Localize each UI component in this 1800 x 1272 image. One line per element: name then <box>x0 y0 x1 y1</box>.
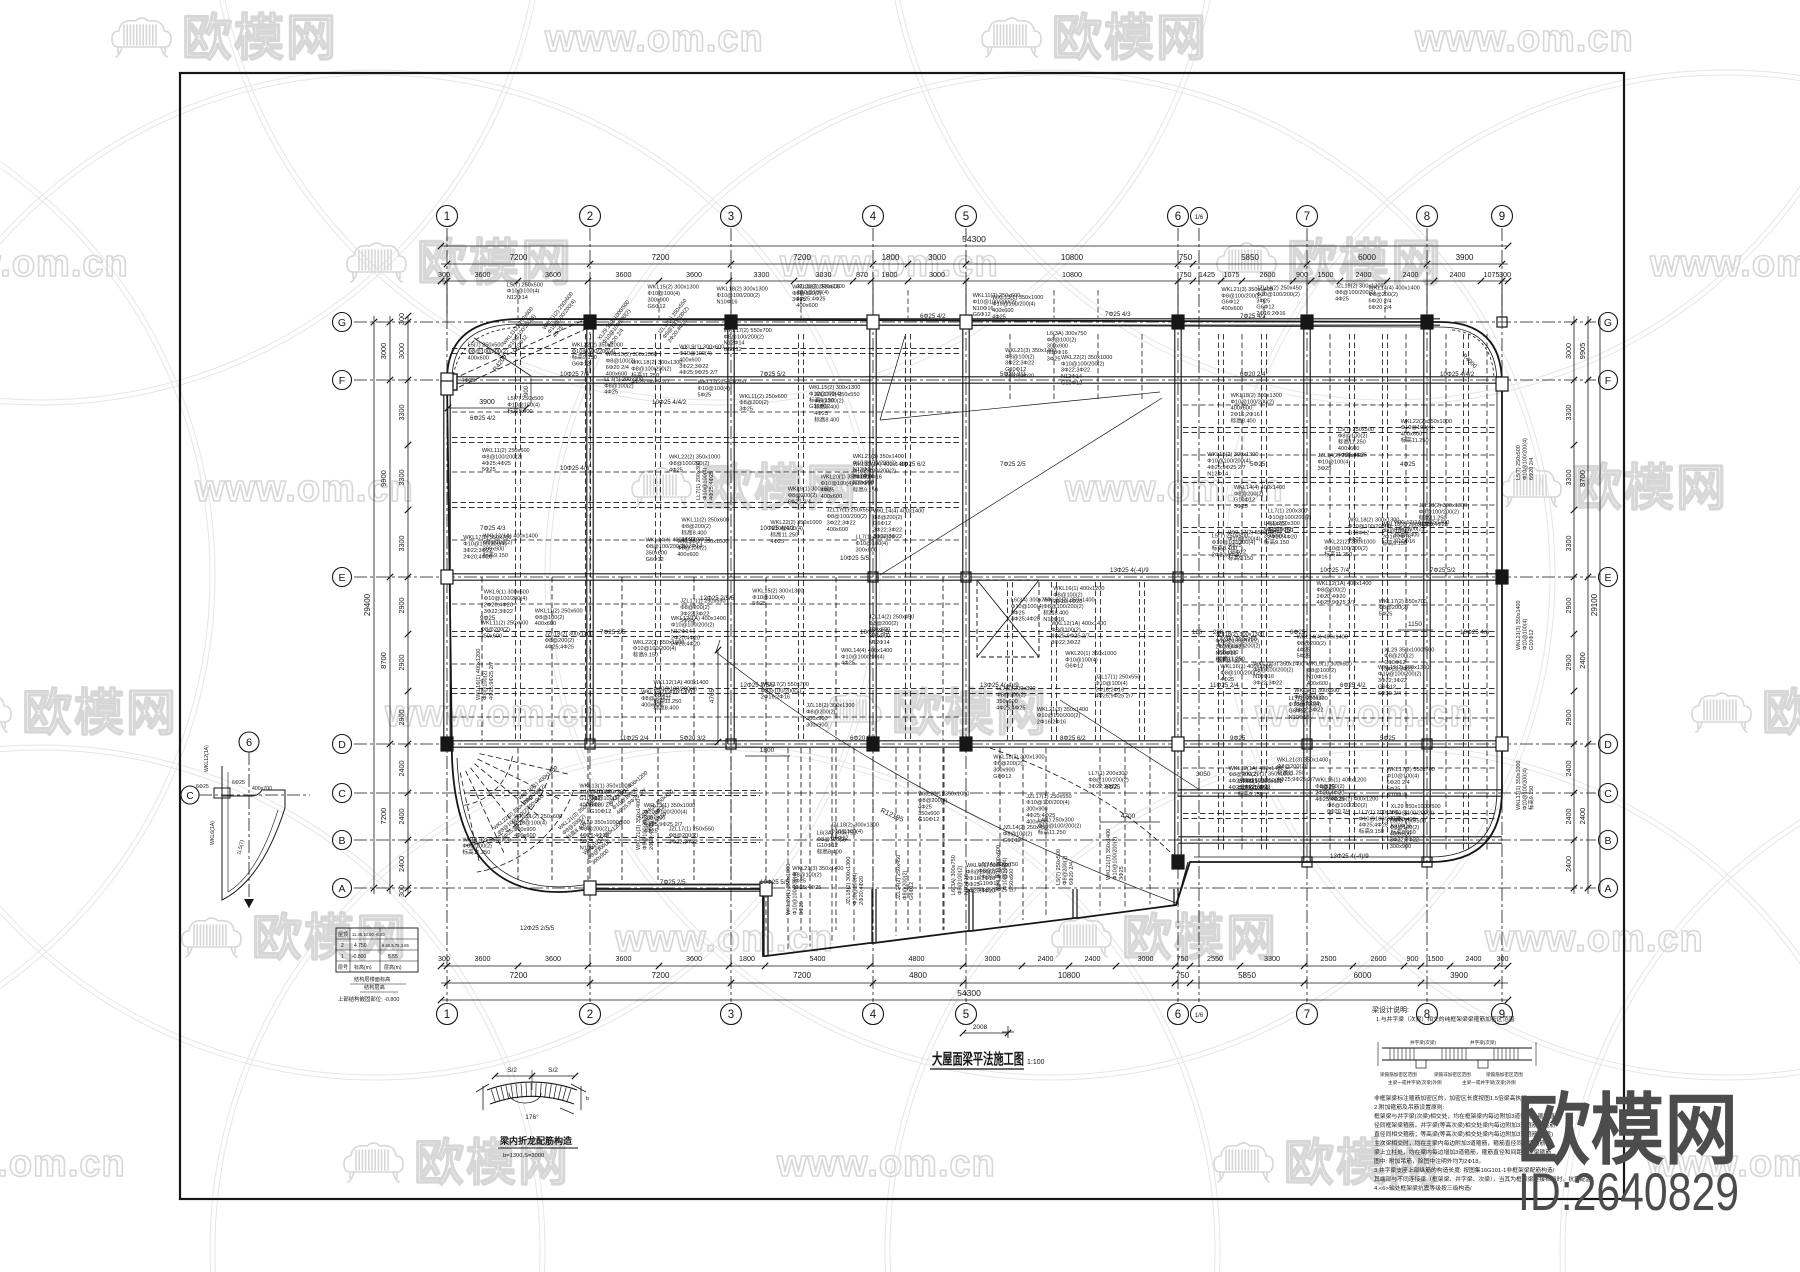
dim 2008 above title <box>963 1032 1008 1034</box>
secondary beam right y=691 <box>1183 687 1497 689</box>
svg-text:大屋面梁平法施工图: 大屋面梁平法施工图 <box>932 1050 1024 1068</box>
svg-text:Φ10@100/200(4): Φ10@100/200(4) <box>1348 524 1392 530</box>
svg-text:Φ10@100(4): Φ10@100(4) <box>1387 774 1420 780</box>
svg-text:7Φ25 5/2: 7Φ25 5/2 <box>760 371 786 378</box>
svg-text:L5(7) 250x500: L5(7) 250x500 <box>1338 427 1374 433</box>
svg-text:400x700: 400x700 <box>252 786 272 792</box>
svg-text:G6Φ12: G6Φ12 <box>1268 522 1286 528</box>
svg-text:G6Φ12: G6Φ12 <box>830 835 848 841</box>
secondary beam right x=1352 <box>1348 334 1350 852</box>
svg-text:标高8.400: 标高8.400 <box>1043 609 1068 617</box>
svg-text:3000: 3000 <box>985 954 1001 963</box>
svg-text:5Φ25: 5Φ25 <box>1380 735 1396 742</box>
axis line D <box>354 743 1596 745</box>
svg-text:A: A <box>1604 883 1611 895</box>
axis bubble 8 <box>1417 206 1438 227</box>
svg-text:3Φ22;3Φ22: 3Φ22;3Φ22 <box>484 609 513 615</box>
svg-text:2008: 2008 <box>973 1024 988 1031</box>
svg-text:4Φ25: 4Φ25 <box>461 378 475 384</box>
axis grid centerlines <box>354 228 1596 1002</box>
secondary beam right single x=1242 <box>1241 334 1243 852</box>
beam on axis A <box>590 884 766 886</box>
svg-text:G6Φ12: G6Φ12 <box>648 304 666 310</box>
svg-text:Φ8@100(2): Φ8@100(2) <box>1307 668 1337 674</box>
svg-text:Φ10@100(4): Φ10@100(4) <box>1318 459 1351 465</box>
svg-text:2400: 2400 <box>1564 761 1573 777</box>
svg-text:WKL16(1) 400x1200: WKL16(1) 400x1200 <box>1220 664 1271 670</box>
svg-text:Φ8@200(2): Φ8@200(2) <box>918 798 948 804</box>
svg-text:Φ10@100(4): Φ10@100(4) <box>679 351 712 357</box>
secondary beam lower x=658 <box>657 748 659 880</box>
svg-text:5Φ25: 5Φ25 <box>1297 654 1311 660</box>
dimension lines top <box>438 234 1511 284</box>
secondary beam grid left block <box>452 334 962 930</box>
svg-text:8700: 8700 <box>1578 470 1587 487</box>
svg-text:2400: 2400 <box>1466 954 1482 963</box>
secondary beam right single y=718 <box>1183 717 1497 719</box>
svg-text:G10Φ12: G10Φ12 <box>1348 530 1369 536</box>
svg-text:N10Φ16: N10Φ16 <box>717 299 738 305</box>
svg-text:4.<6>轴处框架梁抗震等级按三级构造/: 4.<6>轴处框架梁抗震等级按三级构造/ <box>1374 1184 1472 1192</box>
svg-text:3300: 3300 <box>1564 536 1573 552</box>
secondary beam lower x=552 <box>551 748 553 880</box>
svg-text:3600: 3600 <box>475 270 491 279</box>
svg-text:1075: 1075 <box>1484 270 1500 279</box>
svg-text:Φ8@200(2): Φ8@200(2) <box>993 761 1023 767</box>
secondary beam right y=430 <box>1183 426 1497 428</box>
svg-text:1800: 1800 <box>760 747 775 754</box>
column at (590,888) <box>584 881 596 895</box>
svg-text:7Φ25 5/2: 7Φ25 5/2 <box>1430 567 1456 574</box>
axis line F <box>354 379 1596 381</box>
svg-text:1:100: 1:100 <box>1027 1059 1045 1066</box>
svg-text:300x900: 300x900 <box>806 716 827 722</box>
svg-text:井字梁(次梁): 井字梁(次梁) <box>1470 1039 1496 1046</box>
beam on axis 3 <box>727 322 729 744</box>
svg-text:9: 9 <box>1499 211 1505 223</box>
svg-text:L5(7) 250x500: L5(7) 250x500 <box>468 343 504 349</box>
column at (966,744) <box>960 737 972 751</box>
axis bubble C <box>1599 784 1618 803</box>
svg-text:Φ8@100(2): Φ8@100(2) <box>957 865 963 895</box>
column at (966,322) <box>960 315 972 329</box>
svg-text:G6Φ12: G6Φ12 <box>1378 684 1396 690</box>
svg-text:8Φ25 6/2: 8Φ25 6/2 <box>1060 735 1086 742</box>
secondary beam right single x=1446 <box>1445 334 1447 852</box>
svg-text:13Φ25 4(-4)/9: 13Φ25 4(-4)/9 <box>980 682 1019 689</box>
slab rib x=1100 <box>1099 748 1101 911</box>
column at (766,889) <box>760 882 772 896</box>
secondary beam grid mid block <box>970 334 1174 740</box>
dimension lines left <box>363 313 411 897</box>
svg-text:G6Φ12: G6Φ12 <box>724 347 742 353</box>
svg-text:Φ10@100/200(4): Φ10@100/200(4) <box>1522 438 1528 480</box>
svg-text:G6Φ12: G6Φ12 <box>572 362 590 368</box>
svg-text:3900: 3900 <box>479 399 495 406</box>
svg-text:300x900: 300x900 <box>1390 844 1411 850</box>
svg-text:6: 6 <box>1175 211 1181 223</box>
svg-text:Φ8@100(2): Φ8@100(2) <box>641 696 671 702</box>
secondary beam y=634 <box>452 630 962 632</box>
svg-text:9905: 9905 <box>1578 343 1587 360</box>
secondary beam mid y=634 <box>970 630 1174 632</box>
secondary beam single y=540 <box>452 539 962 541</box>
floor level table <box>336 928 418 1003</box>
svg-text:WKL14(4) 400x1400: WKL14(4) 400x1400 <box>873 508 924 514</box>
svg-text:N12Φ14: N12Φ14 <box>1061 374 1082 380</box>
svg-text:Φ8@200(2): Φ8@200(2) <box>681 524 711 530</box>
column at (447,380) <box>441 373 453 387</box>
fan arc r=126 <box>477 791 574 872</box>
svg-text:9Φ25: 9Φ25 <box>1230 735 1246 742</box>
svg-text:2400: 2400 <box>1085 954 1101 963</box>
svg-text:5400: 5400 <box>810 954 826 963</box>
svg-text:10800: 10800 <box>1061 253 1084 262</box>
svg-text:WKL13(1) 350x1000: WKL13(1) 350x1000 <box>1516 761 1522 810</box>
svg-text:WKL22(2) 350x1000: WKL22(2) 350x1000 <box>669 455 720 461</box>
svg-text:N10Φ16: N10Φ16 <box>1289 715 1310 721</box>
svg-text:G10Φ12: G10Φ12 <box>1234 498 1255 504</box>
dim 900 rotated <box>530 378 532 404</box>
svg-text:WKL21(3) 350x1400: WKL21(3) 350x1400 <box>1037 707 1088 713</box>
secondary beam y=440 <box>452 436 962 438</box>
svg-text:Φ10@100(4): Φ10@100(4) <box>1011 604 1044 610</box>
svg-text:5Φ25: 5Φ25 <box>1011 610 1025 616</box>
svg-text:Φ8@200(2): Φ8@200(2) <box>1229 772 1259 778</box>
main beams along axes <box>444 319 1502 891</box>
svg-text:标高9.150: 标高9.150 <box>1294 699 1319 707</box>
slab rib x=1046 <box>1045 748 1047 917</box>
svg-text:750: 750 <box>1177 954 1189 963</box>
svg-text:400x600: 400x600 <box>535 621 556 627</box>
svg-text:梁箍筋加密区范围: 梁箍筋加密区范围 <box>1486 1071 1523 1078</box>
slab rib x=832 <box>831 748 833 944</box>
svg-text:3Φ22;3Φ22: 3Φ22;3Φ22 <box>679 364 708 370</box>
svg-text:400x600: 400x600 <box>827 527 848 533</box>
svg-text:Φ10@100/200(2): Φ10@100/200(2) <box>853 468 897 474</box>
svg-text:L5(7) 250x500: L5(7) 250x500 <box>1516 445 1522 480</box>
secondary beam right x=1385 <box>1381 334 1383 852</box>
svg-text:3000: 3000 <box>929 270 945 279</box>
svg-text:6: 6 <box>246 737 252 749</box>
svg-text:400x600: 400x600 <box>1390 831 1411 837</box>
svg-text:400x600: 400x600 <box>796 303 817 309</box>
column at (1178,577) <box>1173 572 1183 582</box>
svg-text:3Φ25: 3Φ25 <box>1234 504 1248 510</box>
svg-text:标高8.400: 标高8.400 <box>681 529 706 537</box>
svg-text:10Φ25 5/5: 10Φ25 5/5 <box>860 629 890 636</box>
svg-text:4700: 4700 <box>1121 813 1136 820</box>
svg-text:WKL21(3) 350x1400: WKL21(3) 350x1400 <box>853 454 904 460</box>
secondary beam lower x=518 <box>517 748 519 880</box>
svg-text:2Φ16;2Φ16: 2Φ16;2Φ16 <box>1231 412 1260 418</box>
slab wall x=971 <box>968 889 970 931</box>
svg-text:4Φ25: 4Φ25 <box>1297 647 1311 653</box>
svg-text:非框架梁标注箍筋加密区的，加密区长度按图1.5倍梁高执行。: 非框架梁标注箍筋加密区的，加密区长度按图1.5倍梁高执行。 <box>1374 1094 1533 1102</box>
svg-text:400x600: 400x600 <box>1307 681 1328 687</box>
svg-text:400x600: 400x600 <box>1231 406 1252 412</box>
axis bubble 5 <box>956 206 977 227</box>
svg-text:350x600: 350x600 <box>1009 869 1015 890</box>
svg-text:Φ8@100/200(2): Φ8@100/200(2) <box>724 334 764 340</box>
secondary beam right single y=768 <box>1183 767 1497 769</box>
svg-text:350x600: 350x600 <box>646 550 667 556</box>
svg-text:750: 750 <box>1180 270 1192 279</box>
svg-text:L6(3A) 300x750: L6(3A) 300x750 <box>951 855 957 895</box>
svg-text:WKL9(1) 300x600: WKL9(1) 300x600 <box>1294 688 1339 694</box>
skew beams top-left <box>443 320 590 390</box>
axis bubbles top/bottom <box>333 206 1618 1025</box>
arch rebar detail <box>476 1067 589 1159</box>
svg-text:4800: 4800 <box>909 971 927 980</box>
svg-text:3300: 3300 <box>1264 954 1280 963</box>
beam on axis C <box>1178 789 1502 791</box>
column at (1427,862) <box>1422 857 1432 867</box>
axis bubble 4 <box>863 206 884 227</box>
svg-text:2Φ16;2Φ16: 2Φ16;2Φ16 <box>853 475 882 481</box>
column at (873,744) <box>867 737 879 751</box>
svg-text:WKL22(2) 350x1000: WKL22(2) 350x1000 <box>1401 419 1452 425</box>
svg-text:7Φ25 4/3: 7Φ25 4/3 <box>1105 311 1131 318</box>
axis bubble G <box>333 313 352 332</box>
axis bubble F <box>333 371 352 390</box>
svg-text:3050: 3050 <box>1196 771 1211 778</box>
column at (1427,744) <box>1422 739 1432 749</box>
dimension lines bottom <box>438 954 1511 1003</box>
svg-text:主梁一或井字梁(次梁)外侧: 主梁一或井字梁(次梁)外侧 <box>1462 1079 1516 1086</box>
svg-text:11Φ25 2/4: 11Φ25 2/4 <box>1210 682 1239 689</box>
svg-text:6Φ25 4/2: 6Φ25 4/2 <box>470 415 496 422</box>
svg-text:6Φ20 2/4: 6Φ20 2/4 <box>1529 458 1535 480</box>
svg-text:JZL17(1) 250x550: JZL17(1) 250x550 <box>1095 675 1140 681</box>
axis bubble 8 <box>1417 1004 1438 1025</box>
svg-text:400x600: 400x600 <box>821 494 842 500</box>
svg-text:标高9.150: 标高9.150 <box>572 353 597 361</box>
svg-text:C: C <box>186 791 193 802</box>
svg-text:Φ8@100(2): Φ8@100(2) <box>482 670 488 700</box>
svg-text:LL7(1) 200x300: LL7(1) 200x300 <box>1268 509 1307 515</box>
svg-text:6Φ20 2/4: 6Φ20 2/4 <box>1369 305 1392 311</box>
svg-text:8700: 8700 <box>379 652 388 669</box>
svg-text:300: 300 <box>1499 270 1511 279</box>
svg-text:L5(7) 250x500: L5(7) 250x500 <box>1056 849 1062 885</box>
slab rib x=920 <box>919 748 921 933</box>
svg-text:8Φ25 6/2: 8Φ25 6/2 <box>900 461 926 468</box>
svg-text:WKL11(2) 250x600: WKL11(2) 250x600 <box>973 293 1021 299</box>
beam on axis F <box>447 376 1502 378</box>
svg-text:13Φ25 4(-4)/9: 13Φ25 4(-4)/9 <box>1110 567 1149 574</box>
svg-text:WKL18(2) 300x1300: WKL18(2) 300x1300 <box>993 755 1044 761</box>
svg-text:WKL12(1A) 400x1400: WKL12(1A) 400x1400 <box>1317 581 1372 587</box>
svg-text:1: 1 <box>444 1009 450 1021</box>
svg-text:XL29 350x1000/500: XL29 350x1000/500 <box>1391 804 1441 810</box>
svg-text:4Φ25: 4Φ25 <box>604 390 618 396</box>
svg-text:标高11.250: 标高11.250 <box>463 848 491 856</box>
svg-text:3Φ25: 3Φ25 <box>792 297 806 303</box>
svg-text:屋顶: 屋顶 <box>338 932 348 938</box>
beam on axis 1 <box>443 388 445 744</box>
svg-text:300x900: 300x900 <box>1026 807 1047 813</box>
svg-text:L6(3A) 300x750: L6(3A) 300x750 <box>1047 331 1087 337</box>
beam on axis 2 <box>586 322 588 744</box>
svg-text:1: 1 <box>444 211 450 223</box>
axis bubble 3 <box>721 206 742 227</box>
secondary beam mid y=691 <box>970 687 1174 689</box>
svg-text:54300: 54300 <box>957 988 981 998</box>
svg-text:LL7(1) 200x300: LL7(1) 200x300 <box>604 377 643 383</box>
svg-text:WKL9(1) 300x600: WKL9(1) 300x600 <box>484 590 529 596</box>
svg-text:1075: 1075 <box>1224 270 1240 279</box>
svg-text:300: 300 <box>397 885 406 897</box>
svg-text:Φ10@100/200(4): Φ10@100/200(4) <box>841 654 885 660</box>
axis line E <box>354 576 1596 578</box>
svg-text:Φ8@200(2): Φ8@200(2) <box>481 627 511 633</box>
column at (873,577) <box>868 572 878 582</box>
svg-text:WKL18(2) 300x1300: WKL18(2) 300x1300 <box>1348 518 1399 524</box>
svg-text:Φ10@100(4): Φ10@100(4) <box>1002 857 1008 890</box>
axis line 9 <box>1501 228 1503 1002</box>
svg-text:3Φ22;3Φ22: 3Φ22;3Φ22 <box>1051 640 1080 646</box>
svg-text:11.45,10.50,-8.40: 11.45,10.50,-8.40 <box>352 932 385 937</box>
svg-text:3900: 3900 <box>1456 253 1474 262</box>
fan radial 26 <box>478 759 562 800</box>
svg-text:Φ8@100/200(2): Φ8@100/200(2) <box>468 349 508 355</box>
svg-text:WKL12(1A) 400x1400: WKL12(1A) 400x1400 <box>1229 766 1284 772</box>
svg-text:A: A <box>338 883 345 895</box>
svg-text:1800: 1800 <box>882 253 900 262</box>
svg-text:WKL21(3) 350x1400: WKL21(3) 350x1400 <box>1516 601 1522 650</box>
svg-text:4Φ25: 4Φ25 <box>1228 543 1242 549</box>
svg-text:3Φ25: 3Φ25 <box>799 901 805 915</box>
svg-text:3600: 3600 <box>686 270 702 279</box>
secondary beam y=840 left <box>470 836 760 838</box>
svg-text:6Φ25: 6Φ25 <box>232 780 245 786</box>
secondary beam single y=664 <box>452 663 962 665</box>
beam on axis E <box>447 573 1502 575</box>
svg-text:2550: 2550 <box>1207 954 1223 963</box>
axis line A <box>354 887 1596 889</box>
svg-text:400x600: 400x600 <box>1401 432 1422 438</box>
svg-text:7200: 7200 <box>379 808 388 825</box>
column at (1427,322) <box>1421 315 1433 329</box>
svg-text:4Φ25;4Φ25: 4Φ25;4Φ25 <box>1359 823 1388 829</box>
svg-text:2Φ20;4Φ20: 2Φ20;4Φ20 <box>1268 534 1297 540</box>
svg-text:Φ10@100/200(2): Φ10@100/200(2) <box>1217 644 1261 650</box>
axis line 7 <box>1306 228 1308 1002</box>
axis bubble B <box>333 831 352 850</box>
svg-text:N12Φ14: N12Φ14 <box>724 341 745 347</box>
svg-text:标高9.150: 标高9.150 <box>633 651 658 659</box>
beam on axis 8 <box>1423 322 1425 862</box>
axis line C <box>354 792 1596 794</box>
svg-text:6Φ20 2/4: 6Φ20 2/4 <box>788 499 811 505</box>
svg-text:JZL18(2) 300x1300: JZL18(2) 300x1300 <box>545 632 594 638</box>
svg-text:2Φ16;2Φ16: 2Φ16;2Φ16 <box>1037 720 1066 726</box>
svg-text:WKL21(3) 350x1400: WKL21(3) 350x1400 <box>1106 829 1112 880</box>
svg-text:3Φ22;3Φ22: 3Φ22;3Φ22 <box>463 548 492 554</box>
svg-text:Φ10@100(4): Φ10@100(4) <box>830 829 863 835</box>
svg-text:S/2: S/2 <box>507 1067 517 1074</box>
leader diagonals right of 5 <box>1060 700 1200 790</box>
axis bubble B <box>1599 831 1618 850</box>
svg-text:10Φ25 4/4/2: 10Φ25 4/4/2 <box>760 525 795 532</box>
svg-text:2Φ20;4Φ20: 2Φ20;4Φ20 <box>1317 594 1346 600</box>
svg-text:2900: 2900 <box>397 655 406 671</box>
svg-text:JZL14(2) 250x450: JZL14(2) 250x450 <box>896 855 902 900</box>
svg-text:29100: 29100 <box>1590 593 1599 616</box>
svg-text:G10Φ12: G10Φ12 <box>918 817 939 823</box>
svg-text:C: C <box>338 788 346 800</box>
secondary beam x=908 <box>904 334 906 740</box>
svg-text:Φ10@100(4): Φ10@100(4) <box>1095 681 1128 687</box>
svg-text:3900: 3900 <box>1450 971 1468 980</box>
svg-text:3Φ25: 3Φ25 <box>1047 357 1061 363</box>
svg-text:7Φ25 2/5: 7Φ25 2/5 <box>660 879 686 886</box>
svg-text:WKL14(4) 400x1400: WKL14(4) 400x1400 <box>1234 485 1285 491</box>
svg-text:2900: 2900 <box>397 710 406 726</box>
svg-text:G6Φ12: G6Φ12 <box>646 557 664 563</box>
secondary beam grid right block <box>1183 334 1497 852</box>
svg-text:120: 120 <box>1192 630 1203 636</box>
svg-text:WKL22(2) 350x1000: WKL22(2) 350x1000 <box>1061 355 1112 361</box>
svg-text:4Φ25;4Φ25: 4Φ25;4Φ25 <box>996 705 1025 711</box>
svg-text:标高9.150: 标高9.150 <box>1527 786 1535 810</box>
svg-text:2400: 2400 <box>1578 808 1587 825</box>
svg-text:3Φ22;3Φ22: 3Φ22;3Φ22 <box>873 534 902 540</box>
R4200 radial leader <box>474 338 531 376</box>
beam annotation labels <box>463 282 1535 915</box>
svg-text:G10Φ12: G10Φ12 <box>1529 630 1535 651</box>
secondary beam lower x=731 <box>730 748 732 880</box>
svg-text:1425: 1425 <box>1199 270 1215 279</box>
svg-text:Φ8@100/200(2): Φ8@100/200(2) <box>1220 671 1260 677</box>
svg-text:L6(3A) 300x750: L6(3A) 300x750 <box>1217 637 1257 643</box>
svg-text:JZL18(2) 300x1300: JZL18(2) 300x1300 <box>1335 284 1384 290</box>
svg-text:7Φ25 2/5: 7Φ25 2/5 <box>600 629 626 636</box>
svg-text:2600: 2600 <box>1371 954 1387 963</box>
svg-text:3300: 3300 <box>397 470 406 486</box>
axis bubble D <box>1599 735 1618 754</box>
svg-text:WKL9(1) 300x600: WKL9(1) 300x600 <box>996 845 1002 890</box>
column at (873,322) <box>867 315 879 329</box>
svg-text:5Φ25: 5Φ25 <box>1250 461 1266 468</box>
svg-text:Φ10@100/200(2): Φ10@100/200(2) <box>1037 713 1081 719</box>
secondary beam lower x=908 <box>907 748 909 930</box>
secondary beam right single y=405 <box>1183 404 1497 406</box>
svg-text:300x900: 300x900 <box>856 547 877 553</box>
svg-text:4Φ25: 4Φ25 <box>1335 296 1349 302</box>
axis line 2 <box>589 228 591 1002</box>
svg-text:7200: 7200 <box>510 253 528 262</box>
svg-text:3000: 3000 <box>1564 343 1573 359</box>
svg-text:G: G <box>338 317 346 329</box>
svg-text:Φ10@100/200(4): Φ10@100/200(4) <box>1522 768 1528 810</box>
svg-text:3Φ22;3Φ22: 3Φ22;3Φ22 <box>680 612 709 618</box>
column at (1178,744) <box>1172 737 1184 751</box>
svg-text:3Φ22;3Φ22: 3Φ22;3Φ22 <box>1294 707 1323 713</box>
svg-text:Φ10@100/200(2): Φ10@100/200(2) <box>1061 361 1105 367</box>
svg-text:4Φ25: 4Φ25 <box>669 468 683 474</box>
svg-text:-0.800: -0.800 <box>352 954 366 960</box>
svg-text:Φ8@100/200(2): Φ8@100/200(2) <box>631 367 671 373</box>
axis bubble C <box>333 784 352 803</box>
slab rib x=896 <box>895 748 897 936</box>
svg-text:1/6: 1/6 <box>1195 215 1204 221</box>
svg-text:10Φ25 7/4: 10Φ25 7/4 <box>1320 567 1350 574</box>
column at (590,322) <box>584 315 596 329</box>
slab wall x=874 <box>871 889 873 943</box>
svg-text:WKL15(2) 300x1300: WKL15(2) 300x1300 <box>641 690 692 696</box>
